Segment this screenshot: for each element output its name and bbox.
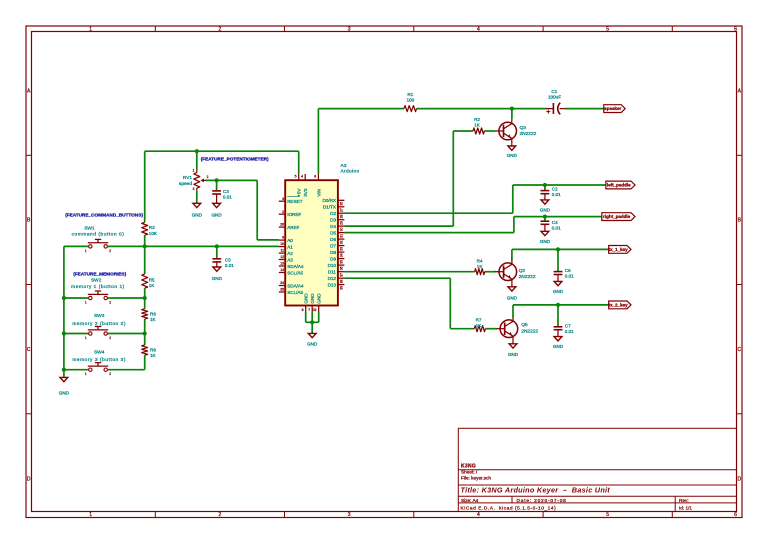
- svg-text:7: 7: [308, 308, 310, 312]
- svg-text:D6: D6: [330, 237, 336, 242]
- wire C6 bottom: [557, 275, 559, 281]
- wire Q3 collector: [511, 109, 513, 119]
- capacitor C3: [212, 180, 232, 199]
- ground left bus: [59, 377, 70, 395]
- svg-text:Title: K3NG Arduino Keyer –: Title: K3NG Arduino Keyer – Basic Unit: [461, 485, 611, 494]
- svg-text:D2: D2: [330, 211, 336, 216]
- svg-text:GND: GND: [192, 212, 203, 217]
- svg-text:(FEATURE_POTENTIOMETER): (FEATURE_POTENTIOMETER): [201, 157, 269, 162]
- svg-text:1: 1: [89, 512, 92, 518]
- svg-text:A0: A0: [287, 238, 293, 243]
- svg-text:GND: GND: [540, 239, 551, 244]
- junction C5-button row: [215, 244, 219, 248]
- svg-text:34: 34: [340, 253, 344, 257]
- junction C2 node: [543, 183, 547, 187]
- svg-text:34: 34: [280, 281, 284, 285]
- svg-text:left_paddle: left_paddle: [607, 183, 631, 188]
- svg-text:2: 2: [219, 512, 222, 518]
- hierarchical label left_paddle: [606, 181, 635, 189]
- svg-text:9: 9: [282, 236, 284, 240]
- ground C2: [540, 200, 551, 213]
- svg-text:4: 4: [301, 175, 303, 179]
- svg-text:5: 5: [606, 27, 609, 33]
- svg-text:10: 10: [280, 242, 284, 246]
- wire tx_2_key row: [513, 305, 609, 317]
- svg-text:D8: D8: [330, 250, 336, 255]
- hierarchical label speaker: [604, 105, 625, 113]
- svg-text:35: 35: [340, 260, 344, 264]
- svg-text:C1: C1: [551, 89, 557, 94]
- wire R6 leads: [144, 298, 146, 334]
- junction C4 node: [543, 215, 547, 219]
- note (FEATURE_COMMAND_BUTTONS): [65, 212, 143, 217]
- svg-text:2: 2: [219, 27, 222, 33]
- svg-text:2: 2: [282, 210, 284, 214]
- hierarchical label tx_2_key: [609, 301, 631, 309]
- svg-text:0.01: 0.01: [565, 274, 574, 279]
- junction wiper-C3: [215, 178, 219, 182]
- svg-text:Size: A4: Size: A4: [461, 498, 479, 503]
- svg-text:command (button 0): command (button 0): [72, 232, 125, 238]
- svg-text:SCL/A5: SCL/A5: [287, 290, 303, 295]
- svg-text:6: 6: [734, 512, 737, 518]
- svg-text:AREF: AREF: [287, 225, 299, 230]
- svg-text:Rev:: Rev:: [679, 498, 689, 503]
- resistor R7: [474, 318, 485, 332]
- ground Q5: [508, 341, 519, 357]
- svg-text:10K: 10K: [149, 231, 158, 236]
- wire +5V rail horizontal: [145, 150, 299, 152]
- svg-text:39: 39: [340, 286, 344, 290]
- svg-text:SW4: SW4: [94, 349, 105, 355]
- switch SW2: [71, 277, 125, 304]
- wire pot top: [196, 151, 198, 170]
- junction R3-button row: [143, 244, 147, 248]
- switch SW3: [72, 313, 126, 340]
- svg-text:D: D: [737, 476, 741, 482]
- svg-text:Id: 1/1: Id: 1/1: [679, 505, 692, 510]
- ground RV1: [192, 203, 203, 217]
- svg-text:C: C: [27, 347, 31, 353]
- resistor R4: [475, 258, 485, 274]
- svg-text:tx_2_key: tx_2_key: [609, 303, 629, 308]
- svg-text:A2: A2: [287, 251, 293, 256]
- resistor R6: [142, 309, 157, 322]
- svg-text:R4: R4: [477, 258, 483, 263]
- ground C6: [553, 281, 564, 294]
- wire D5 to right_paddle: [344, 217, 601, 233]
- junction C6 node: [556, 247, 560, 251]
- ground Arduino: [307, 333, 318, 346]
- wire pot wiper to A0 corner: [206, 180, 257, 240]
- wire left bus vertical: [63, 246, 65, 377]
- wire C3 bottom: [216, 195, 218, 204]
- capacitor C4: [541, 217, 562, 231]
- svg-text:14: 14: [280, 268, 284, 272]
- wire D12 to R7: [344, 278, 474, 329]
- svg-text:1: 1: [85, 301, 87, 305]
- junction row2 right: [143, 331, 147, 335]
- svg-text:GND: GND: [540, 207, 551, 212]
- junction pot top: [195, 149, 199, 153]
- svg-text:+5V: +5V: [297, 188, 302, 197]
- junction row1 left: [62, 296, 66, 300]
- svg-text:D9: D9: [330, 256, 336, 261]
- wire arduino gnd pins: [306, 312, 319, 333]
- svg-text:1: 1: [89, 27, 92, 33]
- junction C7 node: [556, 303, 560, 307]
- svg-text:memory 2 (button 2): memory 2 (button 2): [72, 321, 126, 327]
- svg-text:1K: 1K: [149, 283, 156, 288]
- capacitor C2: [541, 185, 562, 197]
- svg-text:D5: D5: [330, 230, 336, 235]
- ground Q2: [507, 284, 518, 301]
- svg-text:11: 11: [280, 249, 284, 253]
- resistor R3: [142, 222, 158, 236]
- svg-text:D11: D11: [328, 270, 337, 275]
- svg-text:SW3: SW3: [94, 313, 105, 319]
- svg-text:3V3: 3V3: [303, 188, 308, 197]
- svg-text:GND: GND: [212, 276, 223, 281]
- wire riser to R2: [453, 130, 473, 132]
- resistor R1: [404, 92, 417, 112]
- svg-text:A1: A1: [287, 244, 293, 249]
- svg-text:26: 26: [340, 202, 344, 206]
- svg-text:1K: 1K: [474, 123, 481, 128]
- wire R4 to Q2 base: [485, 271, 497, 273]
- svg-text:IOREF: IOREF: [287, 212, 301, 217]
- svg-text:13: 13: [280, 262, 284, 266]
- ground C3: [211, 203, 222, 217]
- svg-text:D7: D7: [330, 243, 336, 248]
- transistor Q5: [496, 317, 538, 341]
- svg-text:2N2222: 2N2222: [520, 131, 537, 137]
- junction row3 left: [62, 368, 66, 372]
- svg-text:38: 38: [340, 280, 344, 284]
- svg-text:6: 6: [302, 308, 304, 312]
- svg-text:0.01: 0.01: [225, 263, 234, 268]
- svg-text:D4: D4: [330, 224, 336, 229]
- transistor Q2: [495, 260, 536, 284]
- svg-text:tx_1_key: tx_1_key: [609, 247, 629, 252]
- svg-text:R1: R1: [407, 92, 413, 97]
- ground C5: [212, 267, 223, 281]
- svg-text:26: 26: [280, 223, 284, 227]
- wire VIN vertical: [317, 109, 319, 174]
- svg-text:0.01: 0.01: [565, 329, 574, 334]
- wire R3 bottom to button row: [144, 235, 146, 246]
- svg-text:2: 2: [109, 336, 111, 340]
- svg-text:D3: D3: [330, 218, 336, 223]
- wire D11 to R4: [344, 271, 474, 273]
- svg-text:31: 31: [340, 234, 344, 238]
- svg-text:1K: 1K: [150, 353, 157, 358]
- wire R2 to Q3 base: [484, 130, 495, 132]
- wire +5V pin drop: [298, 151, 300, 174]
- svg-text:1: 1: [193, 169, 195, 173]
- title block: [458, 428, 736, 511]
- junction row2 left: [62, 331, 66, 335]
- wire D4 to R2 riser: [344, 131, 453, 226]
- svg-text:5: 5: [606, 512, 609, 518]
- svg-text:RV1: RV1: [183, 175, 193, 181]
- svg-text:100: 100: [406, 98, 414, 103]
- svg-text:RESET: RESET: [287, 199, 303, 204]
- svg-text:Date: 2020-07-08: Date: 2020-07-08: [517, 498, 567, 504]
- svg-text:1K: 1K: [150, 317, 157, 322]
- svg-text:Sheet: /: Sheet: /: [461, 469, 478, 474]
- junction gnd bus: [310, 320, 314, 324]
- svg-text:GND: GND: [507, 153, 518, 158]
- svg-text:D10: D10: [328, 263, 337, 268]
- note (FEATURE_MEMORIES): [73, 272, 126, 277]
- svg-text:memory 1 (button 1): memory 1 (button 1): [71, 284, 125, 290]
- svg-text:(FEATURE_MEMORIES): (FEATURE_MEMORIES): [73, 272, 126, 277]
- svg-text:GND: GND: [211, 212, 222, 217]
- svg-text:C5: C5: [225, 257, 231, 262]
- svg-text:D0/RX: D0/RX: [322, 198, 336, 203]
- svg-text:GND: GND: [553, 289, 564, 294]
- svg-text:GND: GND: [317, 293, 322, 304]
- svg-text:100uF: 100uF: [548, 95, 561, 100]
- svg-text:SW1: SW1: [84, 225, 95, 231]
- svg-text:C4: C4: [552, 220, 558, 225]
- wire pot bottom: [196, 191, 198, 204]
- wire memory row 3: [64, 369, 145, 371]
- svg-text:GND: GND: [508, 352, 519, 357]
- svg-text:32: 32: [340, 240, 344, 244]
- svg-text:GND: GND: [507, 295, 518, 300]
- capacitor C1: [546, 89, 565, 115]
- wire to A0 pin: [257, 239, 279, 241]
- wire R7 to Q5 base: [485, 328, 496, 330]
- wire tx_1_key row: [512, 249, 609, 260]
- svg-text:28: 28: [340, 215, 344, 219]
- svg-text:R6: R6: [150, 311, 156, 316]
- svg-text:A3: A3: [287, 257, 293, 262]
- svg-text:Q2: Q2: [519, 268, 526, 274]
- svg-text:Q3: Q3: [520, 125, 527, 131]
- svg-text:1K: 1K: [476, 323, 483, 328]
- svg-text:GND: GND: [310, 293, 315, 304]
- svg-text:3: 3: [348, 27, 351, 33]
- svg-text:C6: C6: [565, 268, 571, 273]
- svg-text:8: 8: [314, 175, 316, 179]
- svg-text:6: 6: [734, 27, 737, 33]
- svg-text:memory 3 (button 3): memory 3 (button 3): [72, 357, 126, 363]
- svg-text:R2: R2: [474, 117, 480, 122]
- svg-text:Q5: Q5: [521, 322, 528, 328]
- svg-text:2: 2: [109, 372, 111, 376]
- hierarchical label tx_1_key: [609, 246, 631, 254]
- svg-text:A3: A3: [341, 163, 347, 169]
- wire memory row 1: [64, 297, 145, 299]
- svg-text:SCL/A5: SCL/A5: [287, 270, 303, 275]
- switch SW1: [72, 225, 125, 253]
- svg-text:D12: D12: [328, 276, 337, 281]
- svg-text:12: 12: [280, 255, 284, 259]
- svg-text:GND: GND: [59, 391, 70, 396]
- wire C1 to speaker label: [565, 108, 604, 110]
- hierarchical label right_paddle: [602, 213, 635, 221]
- svg-text:32: 32: [313, 308, 317, 312]
- svg-text:C2: C2: [552, 186, 558, 191]
- wire C7 bottom: [557, 330, 559, 336]
- svg-text:37: 37: [340, 273, 344, 277]
- svg-text:3: 3: [193, 187, 195, 191]
- svg-text:4: 4: [477, 27, 480, 33]
- capacitor C5: [212, 246, 234, 268]
- svg-text:36: 36: [340, 266, 344, 270]
- svg-text:C3: C3: [223, 189, 229, 194]
- wire C2 bottom: [544, 194, 546, 200]
- svg-text:SDA/A4: SDA/A4: [287, 264, 304, 269]
- junction speaker node: [510, 107, 514, 111]
- switch SW4: [72, 349, 126, 376]
- svg-text:R8: R8: [150, 348, 156, 353]
- wire C4 bottom: [544, 225, 546, 231]
- svg-text:Arduino: Arduino: [341, 169, 360, 175]
- svg-text:0.01: 0.01: [223, 194, 232, 199]
- wire C5 bottom: [216, 263, 218, 268]
- svg-text:30: 30: [340, 227, 344, 231]
- op-amp U1 Arduino module A3: [279, 163, 360, 312]
- capacitor C7: [554, 305, 575, 334]
- svg-text:D: D: [27, 476, 31, 482]
- svg-text:GND: GND: [304, 293, 309, 304]
- svg-text:1K: 1K: [477, 264, 484, 269]
- capacitor C6: [554, 249, 575, 278]
- svg-text:2: 2: [207, 175, 209, 179]
- svg-text:35: 35: [280, 288, 284, 292]
- svg-text:2N2222: 2N2222: [519, 274, 536, 280]
- svg-text:KiCad E.D.A. kicad (5.1.5-0-1: KiCad E.D.A. kicad (5.1.5-0-10_14): [461, 505, 557, 511]
- svg-text:right_paddle: right_paddle: [603, 214, 630, 219]
- transistor Q3: [495, 119, 537, 143]
- junction row1 right: [143, 296, 147, 300]
- svg-text:3: 3: [282, 197, 284, 201]
- svg-text:C: C: [737, 347, 741, 353]
- svg-text:2: 2: [109, 249, 111, 253]
- svg-text:C7: C7: [565, 323, 571, 328]
- wire R8 leads: [144, 334, 146, 370]
- svg-text:2: 2: [109, 301, 111, 305]
- ground Q3: [507, 143, 518, 158]
- svg-text:D13: D13: [328, 282, 337, 287]
- svg-text:3: 3: [348, 512, 351, 518]
- svg-text:1: 1: [85, 336, 87, 340]
- svg-text:speaker: speaker: [604, 106, 621, 111]
- svg-text:2N2222: 2N2222: [521, 329, 538, 335]
- svg-text:1: 1: [85, 372, 87, 376]
- wire R1 to C1: [417, 108, 547, 110]
- svg-text:D1/TX: D1/TX: [323, 205, 336, 210]
- wire VIN to R1: [318, 108, 404, 110]
- svg-text:R7: R7: [476, 318, 482, 323]
- svg-text:GND: GND: [307, 341, 318, 346]
- wire R3 top vertical: [144, 151, 146, 222]
- svg-text:1: 1: [85, 249, 87, 253]
- svg-text:GND: GND: [553, 344, 564, 349]
- svg-text:0.01: 0.01: [552, 192, 561, 197]
- resistor R5: [142, 274, 156, 288]
- svg-text:VIN: VIN: [316, 189, 321, 197]
- svg-text:0.01: 0.01: [552, 226, 561, 231]
- ground C4: [540, 231, 551, 244]
- wire button row to A1: [64, 245, 279, 247]
- svg-text:(FEATURE_COMMAND_BUTTONS): (FEATURE_COMMAND_BUTTONS): [65, 212, 143, 217]
- wire R5 leads: [144, 246, 146, 298]
- svg-text:R3: R3: [149, 225, 155, 230]
- wire D2 to left_paddle: [344, 185, 606, 213]
- wire memory row 2: [64, 333, 145, 335]
- svg-text:4: 4: [477, 512, 480, 518]
- svg-text:SDA/A4: SDA/A4: [287, 283, 304, 288]
- svg-text:29: 29: [340, 221, 344, 225]
- svg-text:File: keyer.sch: File: keyer.sch: [461, 475, 491, 480]
- svg-text:5: 5: [295, 175, 297, 179]
- potentiometer RV1: [179, 169, 209, 192]
- svg-text:speed: speed: [179, 181, 192, 187]
- svg-text:27: 27: [340, 208, 344, 212]
- resistor R2: [473, 117, 484, 134]
- svg-text:R5: R5: [149, 277, 155, 282]
- svg-text:SW2: SW2: [91, 277, 102, 283]
- ground C7: [553, 337, 564, 350]
- note (FEATURE_POTENTIOMETER): [201, 157, 269, 162]
- svg-text:33: 33: [340, 247, 344, 251]
- resistor R8: [142, 345, 157, 358]
